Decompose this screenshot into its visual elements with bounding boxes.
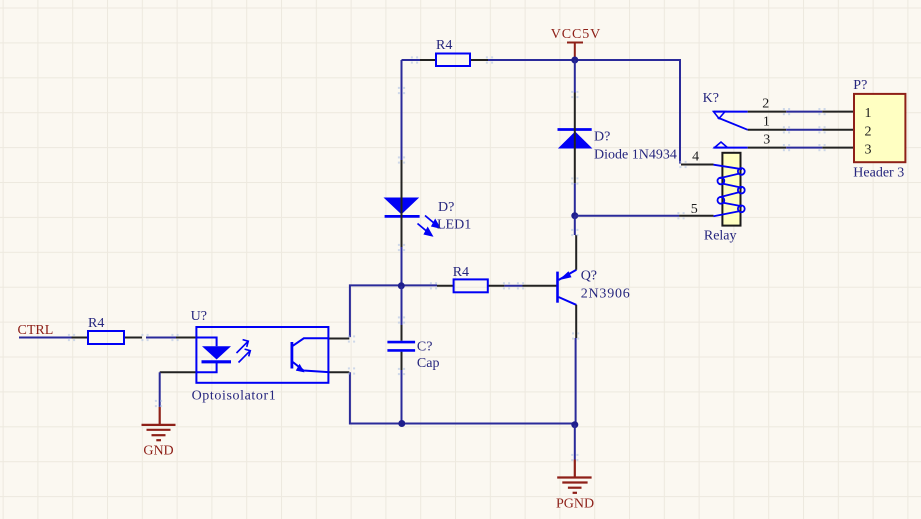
svg-text:R4: R4 xyxy=(453,265,469,280)
svg-text:Diode 1N4934: Diode 1N4934 xyxy=(594,148,677,163)
junction above capacitor xyxy=(398,282,405,289)
relay K? xyxy=(679,91,786,244)
junction at VCC5V xyxy=(571,57,578,64)
svg-text:3: 3 xyxy=(763,133,770,148)
junction at relay pin5 net xyxy=(571,212,578,219)
svg-text:3: 3 xyxy=(865,143,872,158)
resistor R4 (middle) xyxy=(437,265,504,292)
wire R4 to optoisolator xyxy=(146,337,176,339)
wire bottom rail from opto emitter to PGND column xyxy=(350,372,575,423)
pin 3 contact xyxy=(714,147,748,149)
ground PGND xyxy=(556,460,594,512)
optoisolator U? xyxy=(160,309,350,404)
resistor R4 (top) xyxy=(420,38,488,66)
junction below capacitor xyxy=(398,420,405,427)
svg-text:K?: K? xyxy=(703,91,719,106)
svg-text:P?: P? xyxy=(853,78,867,93)
svg-text:D?: D? xyxy=(438,200,454,215)
wires relay to header xyxy=(786,112,822,148)
coil body xyxy=(722,153,740,226)
svg-text:Q?: Q? xyxy=(581,269,597,284)
svg-text:1: 1 xyxy=(865,106,872,121)
wire PGND junction to ground stem xyxy=(574,425,576,460)
svg-text:CTRL: CTRL xyxy=(18,323,54,338)
diode D? 1N4934 xyxy=(558,93,677,184)
junction at PGND xyxy=(571,421,578,428)
coil winding xyxy=(714,165,745,217)
wire diode to relay junction xyxy=(574,183,576,215)
svg-text:U?: U? xyxy=(191,309,207,324)
pin endpoint markers xyxy=(68,56,826,461)
wire junction to relay pin 5 xyxy=(575,215,679,217)
wire CTRL stub xyxy=(19,337,72,339)
blade xyxy=(718,118,748,130)
svg-text:LED1: LED1 xyxy=(437,218,471,233)
svg-text:C?: C? xyxy=(417,340,433,355)
svg-text:PGND: PGND xyxy=(556,497,594,512)
wire vertical from R4 corner down to LED xyxy=(401,60,403,160)
wire top rail right of R4 to corner and down to relay xyxy=(488,60,680,164)
coil pins xyxy=(681,164,714,166)
svg-text:2: 2 xyxy=(762,96,769,111)
svg-text:2N3906: 2N3906 xyxy=(581,287,631,302)
svg-text:1: 1 xyxy=(763,114,770,129)
power symbol VCC5V xyxy=(567,43,583,60)
svg-text:VCC5V: VCC5V xyxy=(551,27,601,42)
svg-text:Optoisolator1: Optoisolator1 xyxy=(192,389,277,404)
wire top rail left of R4 xyxy=(402,59,421,61)
wire LED cathode down to junction xyxy=(401,247,403,286)
pin 2 contact xyxy=(714,111,748,113)
svg-text:Header 3: Header 3 xyxy=(853,166,904,181)
wire transistor collector down to PGND xyxy=(575,338,577,425)
ground GND xyxy=(142,407,176,459)
wire opto ground pin down xyxy=(159,372,161,407)
svg-text:2: 2 xyxy=(865,124,872,139)
wire capacitor down to bottom rail xyxy=(401,370,403,424)
svg-text:R4: R4 xyxy=(88,316,104,331)
wire R4 to transistor base xyxy=(504,285,522,287)
svg-text:D?: D? xyxy=(594,130,610,145)
wire junction down to capacitor xyxy=(401,286,403,325)
wire VCC junction down to diode xyxy=(574,60,576,93)
svg-text:GND: GND xyxy=(143,444,173,459)
diode D? LED1 xyxy=(384,160,472,247)
transistor Q? 2N3906 xyxy=(523,235,631,338)
wire junction down to transistor emitter xyxy=(574,216,576,235)
resistor R4 (left) xyxy=(72,316,143,344)
wire from opto collector up and right to R4 mid xyxy=(350,285,437,337)
header P? xyxy=(822,78,905,181)
svg-text:4: 4 xyxy=(692,149,699,164)
svg-text:Cap: Cap xyxy=(417,356,440,371)
svg-text:Relay: Relay xyxy=(704,229,737,244)
svg-text:R4: R4 xyxy=(436,38,452,53)
capacitor C? xyxy=(387,325,439,371)
relay pin stubs to header xyxy=(748,112,787,148)
